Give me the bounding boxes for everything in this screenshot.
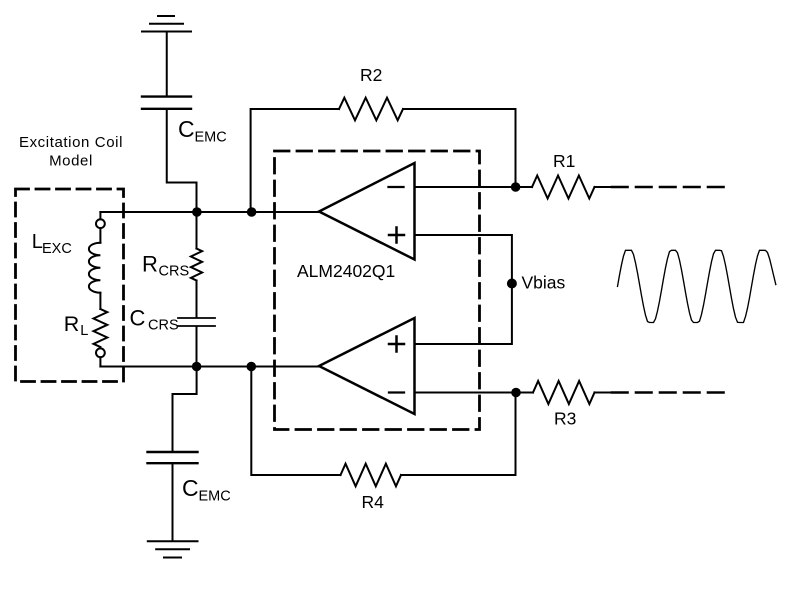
label Vbias xyxy=(522,273,566,293)
node Vbias xyxy=(507,279,517,289)
wire U2 inverting input xyxy=(415,392,517,394)
wire C_EMC top to node A xyxy=(167,110,197,212)
svg-text:CRS: CRS xyxy=(159,263,190,279)
node F (R3 junction) xyxy=(511,388,521,398)
label Excitation Coil Model xyxy=(19,134,123,169)
resistor R2 xyxy=(339,98,403,121)
wire C_EMC bottom to ground xyxy=(172,464,174,541)
resistor R4 xyxy=(341,464,402,487)
inductor L_EXC xyxy=(89,243,101,293)
label R1 xyxy=(553,151,575,171)
wire R2 feedback loop left xyxy=(251,109,339,212)
wire node E to R1 xyxy=(516,186,532,188)
label C_CRS xyxy=(130,306,179,334)
wire R_CRS to C_CRS xyxy=(196,281,198,318)
ground (top, inverted) xyxy=(142,16,191,32)
U2 minus pin mark xyxy=(389,391,404,393)
ALM2402Q1 dashed box xyxy=(275,151,480,430)
node E (R1 junction) xyxy=(511,182,521,192)
label L_EXC xyxy=(32,231,72,257)
terminal circle (top of L_EXC) xyxy=(96,219,105,228)
svg-text:C: C xyxy=(178,116,195,142)
svg-text:R3: R3 xyxy=(554,409,576,429)
op-amp U1 (top) xyxy=(319,163,415,260)
wire terminal to bottom rail xyxy=(99,357,101,366)
svg-text:R4: R4 xyxy=(362,492,385,512)
node D (bottom rail junction 2) xyxy=(247,362,257,372)
svg-text:R: R xyxy=(64,312,80,336)
svg-text:R2: R2 xyxy=(360,65,382,85)
svg-text:C: C xyxy=(130,306,146,331)
node C (bottom rail junction 1) xyxy=(192,362,202,372)
wire node A to R_CRS xyxy=(196,212,198,249)
svg-text:CRS: CRS xyxy=(148,318,179,334)
U1 plus pin mark xyxy=(389,228,404,243)
wire L_EXC to R_L xyxy=(99,293,101,309)
excitation coil model dashed box xyxy=(16,189,124,382)
wire node C to C_EMC bottom (step) xyxy=(173,367,197,451)
wire ground to C_EMC top xyxy=(166,32,168,96)
node A (top rail junction 1) xyxy=(192,207,202,217)
capacitor C_EMC (bottom) xyxy=(148,452,198,463)
wire rail to terminal xyxy=(99,212,101,219)
svg-text:R: R xyxy=(142,252,158,277)
wire U1 non-inverting input to Vbias rail xyxy=(415,235,512,344)
svg-text:Model: Model xyxy=(49,152,93,169)
resistor R_CRS xyxy=(191,249,202,281)
wire terminal to L_EXC xyxy=(99,228,101,243)
svg-text:Excitation Coil: Excitation Coil xyxy=(19,134,123,151)
label C_EMC (top) xyxy=(178,116,227,146)
wire node F to R3 xyxy=(516,392,533,394)
resistor R_L xyxy=(94,309,108,347)
sine wave source symbol xyxy=(618,250,776,322)
svg-text:EMC: EMC xyxy=(195,130,227,146)
svg-text:ALM2402Q1: ALM2402Q1 xyxy=(297,261,395,281)
U1 minus pin mark xyxy=(389,186,404,188)
ground (bottom) xyxy=(148,541,198,557)
wire C_CRS to node C xyxy=(196,327,198,367)
resistor R1 xyxy=(532,176,595,199)
svg-text:L: L xyxy=(80,323,88,339)
resistor R3 xyxy=(533,381,595,404)
op-amp U2 (bottom) xyxy=(319,318,415,414)
wire R4 feedback loop left xyxy=(251,367,340,476)
capacitor C_CRS xyxy=(178,318,215,326)
svg-text:EMC: EMC xyxy=(199,489,231,505)
label R2 xyxy=(360,65,382,85)
svg-text:R1: R1 xyxy=(553,151,575,171)
label ALM2402Q1 xyxy=(297,261,395,281)
svg-text:EXC: EXC xyxy=(42,241,72,257)
svg-text:C: C xyxy=(182,475,199,501)
wire R3 to dashed line xyxy=(595,392,613,394)
label R_CRS xyxy=(142,252,189,280)
node B (top rail junction 2) xyxy=(247,207,257,217)
wire top rail xyxy=(100,211,319,213)
wire bottom rail xyxy=(100,366,319,368)
label R_L xyxy=(64,312,89,339)
dashed signal line (top) xyxy=(612,186,724,189)
wire R2 to right corner xyxy=(403,109,516,187)
dashed signal line (bottom) xyxy=(612,391,724,394)
svg-text:Vbias: Vbias xyxy=(522,273,566,293)
label R4 xyxy=(362,492,385,512)
U2 plus pin mark xyxy=(389,337,404,352)
wire U1 inverting input xyxy=(415,186,516,188)
terminal circle (bottom of R_L) xyxy=(96,348,105,357)
wire R1 to dashed line xyxy=(595,186,613,188)
wire R4 to right corner xyxy=(401,393,516,476)
label R3 xyxy=(554,409,576,429)
capacitor C_EMC (top) xyxy=(142,97,191,109)
label C_EMC (bottom) xyxy=(182,475,231,505)
